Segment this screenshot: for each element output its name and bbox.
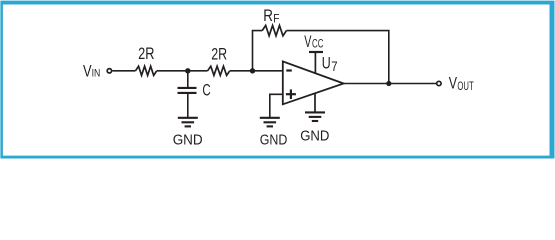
wire R2 to op-amp <box>230 70 283 72</box>
svg-text:IN: IN <box>92 68 101 80</box>
wire node A to capacitor <box>187 71 189 87</box>
wire VIN terminal to R1 <box>112 70 135 72</box>
node A junction dot <box>185 68 190 73</box>
terminal VOUT <box>437 81 441 85</box>
svg-text:7: 7 <box>331 58 337 74</box>
wire capacitor to ground <box>187 94 189 118</box>
svg-text:C: C <box>202 81 210 99</box>
label RF <box>263 7 279 25</box>
wire plus input to ground <box>270 94 283 118</box>
svg-text:V: V <box>304 33 311 51</box>
label VCC <box>304 33 323 51</box>
ground (plus input) <box>260 118 280 127</box>
svg-text:F: F <box>273 12 280 26</box>
resistor RF <box>262 25 286 35</box>
svg-text:U: U <box>322 55 331 73</box>
svg-text:GND: GND <box>173 133 203 149</box>
resistor R2 2R <box>208 66 230 75</box>
capacitor C <box>178 88 197 93</box>
wire R1 to R2 <box>157 70 208 72</box>
label VOUT <box>449 75 474 94</box>
wire feedback top to output <box>286 31 388 84</box>
svg-text:CC: CC <box>312 37 324 51</box>
wire op-amp bottom to ground <box>314 93 316 112</box>
node B junction dot <box>250 68 255 73</box>
plus sign (non-inverting input) <box>286 89 296 99</box>
wire op-amp output to VOUT terminal <box>344 83 436 85</box>
svg-text:2R: 2R <box>211 45 227 63</box>
node C junction dot (output/feedback) <box>386 81 391 86</box>
wire node B up to feedback <box>253 31 263 71</box>
minus sign (inverting input) <box>286 69 292 71</box>
border frame <box>0 1 554 159</box>
VCC power symbol <box>309 52 323 73</box>
op-amp U7 triangle <box>283 61 344 104</box>
svg-text:GND: GND <box>300 128 329 144</box>
label U7 <box>322 55 338 74</box>
ground (under C) <box>178 118 198 127</box>
node VIN label <box>83 63 100 81</box>
svg-text:V: V <box>83 63 92 81</box>
terminal VIN <box>107 69 111 73</box>
svg-text:R: R <box>263 7 273 25</box>
svg-text:GND: GND <box>260 133 288 149</box>
ground (op-amp) <box>305 112 325 121</box>
svg-text:OUT: OUT <box>457 79 474 93</box>
svg-text:V: V <box>449 75 457 93</box>
resistor R1 2R <box>136 66 157 75</box>
svg-text:2R: 2R <box>138 45 154 63</box>
